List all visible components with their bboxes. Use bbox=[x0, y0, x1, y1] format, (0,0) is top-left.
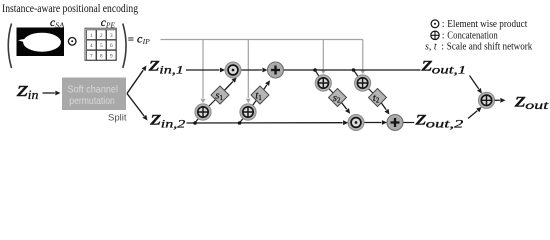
top rail line to z_out,1 bbox=[283, 69, 420, 71]
svg-text:IP: IP bbox=[142, 37, 151, 46]
top rail arrow product to plus bbox=[241, 69, 262, 71]
concat node 4 (z-top with c_IP) bbox=[355, 75, 371, 91]
svg-text:out,1: out,1 bbox=[432, 63, 467, 77]
svg-text:1: 1 bbox=[90, 33, 93, 39]
c_IP drop 3 bbox=[322, 40, 324, 70]
c_IP drop 1 bbox=[202, 40, 204, 99]
svg-text:7: 7 bbox=[90, 54, 93, 60]
svg-text:Soft channel: Soft channel bbox=[68, 84, 119, 96]
concat node 2 (z_in,2 with c_IP) bbox=[240, 104, 256, 120]
svg-text::: : bbox=[442, 19, 445, 30]
svg-text:4: 4 bbox=[90, 43, 93, 49]
svg-text:in,2: in,2 bbox=[161, 116, 186, 130]
bottom rail arrow z_in,2 to product 2 bbox=[187, 122, 343, 124]
branch line z-top to concat 3 bbox=[315, 70, 338, 98]
arrow concat to z_out bbox=[495, 99, 500, 101]
junction dot top 1 bbox=[313, 68, 317, 72]
svg-text:=: = bbox=[128, 34, 135, 46]
svg-text:6: 6 bbox=[110, 43, 113, 49]
c_IP drop 4 bbox=[362, 40, 364, 70]
arrow s1 to product node bbox=[220, 82, 233, 96]
label z_out bbox=[514, 89, 550, 112]
svg-text:9: 9 bbox=[110, 54, 113, 60]
label z_in bbox=[16, 76, 39, 102]
right parenthesis bbox=[123, 24, 126, 69]
product node (element-wise) block 2 bbox=[348, 115, 364, 131]
positional-encoding 3x3 grid bbox=[85, 28, 116, 60]
instance mask image (black box with white blob) bbox=[17, 28, 65, 57]
svg-text:3: 3 bbox=[110, 33, 113, 39]
bottom rail arrow product 2 to plus 2 bbox=[364, 122, 382, 124]
svg-text:Split: Split bbox=[108, 113, 127, 124]
arrow t2 to plus node 2 bbox=[378, 98, 387, 110]
shift network t2 bbox=[369, 89, 387, 107]
bottom rail line to z_out,2 bbox=[403, 122, 414, 124]
svg-text:Element wise product: Element wise product bbox=[447, 19, 527, 30]
svg-text::: : bbox=[441, 41, 444, 52]
branch line z_in,2 to concat 2 bbox=[240, 95, 261, 123]
legend element-wise product symbol bbox=[431, 20, 439, 28]
label z_in,2 bbox=[149, 107, 185, 130]
arrow z_out,2 to final concat bbox=[468, 111, 477, 119]
split arrow to z_in,1 bbox=[127, 70, 143, 93]
svg-text:in,1: in,1 bbox=[159, 63, 184, 77]
arrow z_out,1 to final concat bbox=[470, 76, 479, 89]
arrow s2 to product node 2 bbox=[338, 98, 347, 110]
top rail arrow z_in,1 to product bbox=[186, 69, 220, 71]
svg-text:in: in bbox=[28, 87, 39, 102]
svg-text:z: z bbox=[149, 107, 161, 129]
svg-text:out: out bbox=[525, 98, 549, 112]
concat node 1 (z_in,2 with c_IP) bbox=[195, 104, 211, 120]
split arrow to z_in,2 bbox=[127, 94, 144, 117]
svg-text:permutation: permutation bbox=[69, 95, 115, 107]
legend concatenation symbol bbox=[431, 31, 439, 39]
svg-text:8: 8 bbox=[100, 54, 103, 60]
svg-text:s, t: s, t bbox=[425, 41, 437, 52]
c_IP drop 2 bbox=[247, 40, 249, 99]
svg-text:5: 5 bbox=[100, 43, 103, 49]
product node (element-wise) block 1 bbox=[225, 62, 241, 78]
branch line z-top to concat 4 bbox=[354, 70, 378, 98]
junction dot bottom 2 bbox=[238, 121, 242, 125]
label z_out,2 bbox=[414, 107, 463, 130]
left parenthesis bbox=[8, 24, 11, 69]
arrow t1 to plus node bbox=[260, 85, 267, 95]
final concat node bbox=[478, 92, 494, 108]
svg-text::: : bbox=[442, 31, 445, 42]
concat node 3 (z-top with c_IP) bbox=[315, 75, 331, 91]
label z_in,1 bbox=[148, 54, 184, 77]
plus node block 1 bbox=[268, 62, 284, 78]
plus node block 2 bbox=[387, 115, 403, 131]
soft channel permutation box bbox=[62, 78, 126, 111]
svg-text:z: z bbox=[148, 54, 160, 76]
branch line z_in,2 to concat 1 bbox=[195, 95, 220, 123]
junction dot bottom 1 bbox=[193, 121, 197, 125]
svg-text:SA: SA bbox=[55, 22, 65, 30]
element-wise product operator (small) bbox=[68, 38, 76, 46]
label z_out,1 bbox=[420, 54, 466, 77]
scale network s1 bbox=[211, 86, 229, 104]
arrow z_in to box bbox=[43, 92, 55, 94]
svg-text:PE: PE bbox=[105, 22, 116, 30]
svg-text:out,2: out,2 bbox=[426, 116, 464, 130]
scale network s2 bbox=[329, 89, 347, 107]
svg-text:Scale and shift network: Scale and shift network bbox=[447, 41, 533, 52]
svg-text:Concatenation: Concatenation bbox=[447, 31, 498, 42]
svg-text:z: z bbox=[514, 89, 526, 111]
junction dot top 2 bbox=[352, 68, 356, 72]
c_IP distribution rail (gray) bbox=[161, 39, 363, 41]
svg-text:2: 2 bbox=[100, 33, 103, 39]
shift network t1 bbox=[251, 86, 269, 104]
svg-text:Instance-aware positional enco: Instance-aware positional encoding bbox=[2, 1, 138, 15]
